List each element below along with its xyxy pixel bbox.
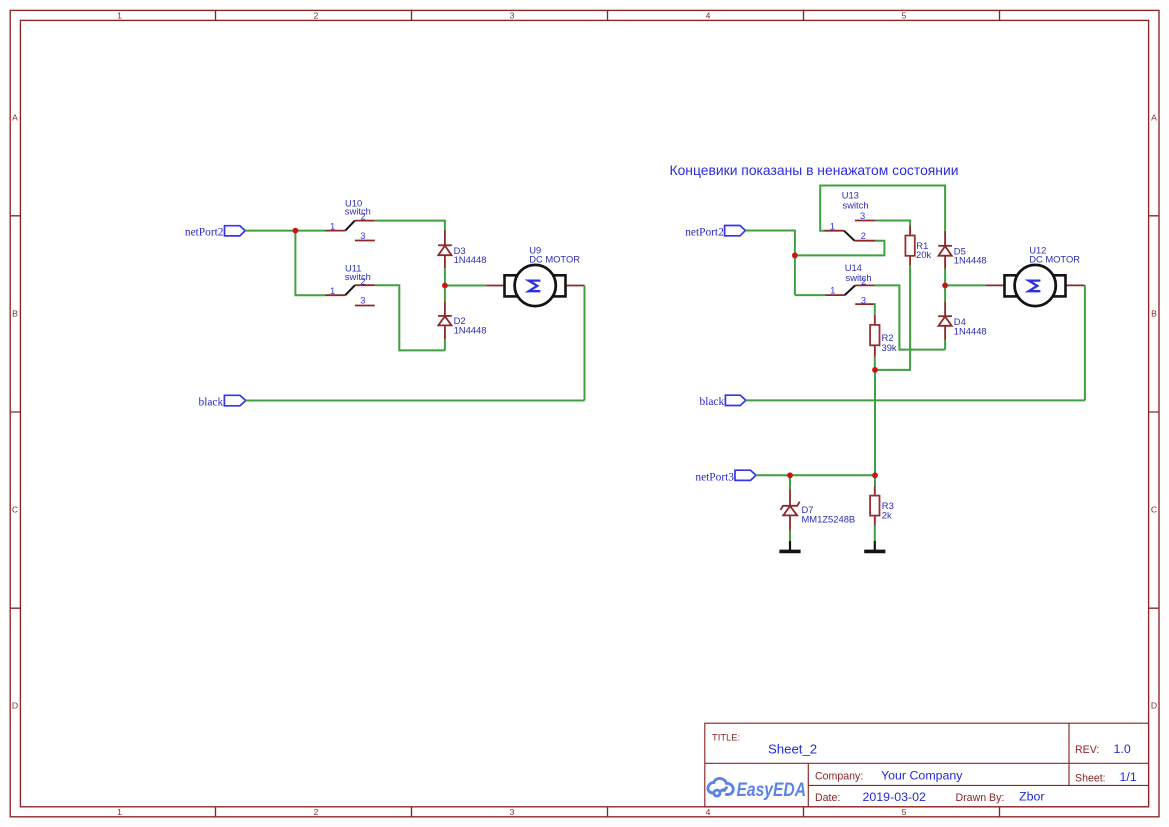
svg-text:3: 3 xyxy=(360,230,365,241)
wire top loop U13 pin1 to D5 cathode xyxy=(820,186,945,231)
wire U13 pin3 to R1 top xyxy=(875,221,910,226)
svg-text:C: C xyxy=(1151,505,1157,515)
svg-text:MM1Z5248B: MM1Z5248B xyxy=(802,514,856,525)
svg-text:Date:: Date: xyxy=(815,792,840,804)
junction node (U9 motor left) xyxy=(442,283,448,289)
svg-text:DC MOTOR: DC MOTOR xyxy=(529,254,580,265)
svg-text:B: B xyxy=(12,309,18,319)
svg-text:3: 3 xyxy=(861,295,866,306)
svg-text:1: 1 xyxy=(117,10,122,20)
wire node down to netPort3 line xyxy=(874,370,876,475)
net flag netPort2 (right) xyxy=(685,226,745,239)
svg-text:D: D xyxy=(12,701,18,711)
wire D4 anode down xyxy=(944,340,946,350)
junction node (netPort2 right) xyxy=(792,253,798,259)
svg-text:1N4448: 1N4448 xyxy=(454,325,487,336)
net flag black (left) xyxy=(199,395,246,408)
net flag netPort2 (left) xyxy=(185,226,245,239)
diode D4 1N4448 xyxy=(938,302,986,340)
svg-text:black: black xyxy=(199,396,224,408)
wire node to motor U12 xyxy=(945,284,985,286)
motor U12 DC MOTOR xyxy=(985,244,1085,306)
junction node (below R2) xyxy=(872,367,878,373)
net flag netPort3 xyxy=(695,470,756,483)
wire U10 pin2 to D3 xyxy=(375,221,445,231)
svg-text:TITLE:: TITLE: xyxy=(712,732,740,743)
wire netPort2 to U10 pin1 xyxy=(245,230,325,232)
svg-text:netPort2: netPort2 xyxy=(685,227,724,239)
wire R3 to ground xyxy=(874,526,876,542)
svg-text:DC MOTOR: DC MOTOR xyxy=(1029,254,1080,265)
resistor R2 39k xyxy=(870,315,897,357)
wire black bus (right) xyxy=(746,399,1085,401)
svg-text:2019-03-02: 2019-03-02 xyxy=(863,790,926,804)
svg-text:Концевики показаны в ненажатом: Концевики показаны в ненажатом состоянии xyxy=(670,163,959,178)
wire R1 bottom to node above netPort3 xyxy=(875,265,910,370)
svg-text:1: 1 xyxy=(330,285,335,296)
svg-text:Your Company: Your Company xyxy=(881,769,963,783)
svg-text:D: D xyxy=(1151,701,1157,711)
wire U12 right down xyxy=(1084,285,1086,400)
svg-text:REV:: REV: xyxy=(1075,744,1099,756)
wire D2 anode down xyxy=(444,339,446,350)
svg-text:2: 2 xyxy=(861,276,866,287)
ground under D7 xyxy=(779,541,800,551)
wire netPort2 right down to U14 pin1 xyxy=(745,231,795,296)
svg-text:3: 3 xyxy=(510,10,515,20)
svg-text:switch: switch xyxy=(345,206,371,217)
wire D5 to D4 through node xyxy=(944,269,946,303)
svg-text:B: B xyxy=(1151,309,1157,319)
svg-text:black: black xyxy=(700,396,725,408)
switch U13 (mirrored) xyxy=(825,190,876,241)
wire black bus (left) xyxy=(246,400,585,402)
svg-text:3: 3 xyxy=(360,295,365,306)
svg-text:EasyEDA: EasyEDA xyxy=(737,780,807,801)
switch U11 xyxy=(325,263,375,306)
wire to U14 pin1 xyxy=(795,294,825,296)
svg-text:1N4448: 1N4448 xyxy=(454,254,487,265)
wire U11 pin2 to bottom of D2 xyxy=(375,285,445,350)
diode D2 1N4448 xyxy=(438,302,486,339)
wire R2 bottom to node xyxy=(874,357,876,370)
diode D5 1N4448 xyxy=(938,231,986,269)
svg-text:1: 1 xyxy=(830,285,835,296)
motor U9 DC MOTOR xyxy=(486,244,584,306)
ground under R3 xyxy=(864,541,885,551)
svg-text:switch: switch xyxy=(846,272,872,283)
svg-text:2: 2 xyxy=(360,275,365,286)
EasyEDA logo xyxy=(708,778,733,796)
svg-text:Drawn By:: Drawn By: xyxy=(956,792,1005,804)
wire netPort3 line xyxy=(756,474,875,476)
svg-text:2: 2 xyxy=(314,10,319,20)
wire U14 pin2 to D4 anode xyxy=(875,285,945,349)
svg-text:39k: 39k xyxy=(882,342,897,353)
svg-text:4: 4 xyxy=(706,807,711,817)
svg-text:1N4448: 1N4448 xyxy=(954,255,987,266)
svg-text:Sheet_2: Sheet_2 xyxy=(768,742,817,757)
resistor R3 2k xyxy=(870,486,894,525)
svg-text:2: 2 xyxy=(861,230,866,241)
svg-text:20k: 20k xyxy=(916,249,931,260)
svg-text:1: 1 xyxy=(117,807,122,817)
wire U13 pin2 loop back to node xyxy=(795,241,885,256)
svg-text:A: A xyxy=(12,113,18,123)
svg-text:2k: 2k xyxy=(882,510,892,521)
svg-text:netPort3: netPort3 xyxy=(695,471,734,483)
svg-text:C: C xyxy=(12,505,18,515)
svg-text:1/1: 1/1 xyxy=(1120,770,1137,784)
junction node (U12 motor left) xyxy=(942,283,948,289)
svg-text:3: 3 xyxy=(860,210,865,221)
wire D3 to D2 through node xyxy=(444,268,446,302)
svg-text:5: 5 xyxy=(902,10,907,20)
svg-text:netPort2: netPort2 xyxy=(185,227,224,239)
svg-text:Zbor: Zbor xyxy=(1019,789,1044,803)
svg-text:3: 3 xyxy=(510,807,515,817)
svg-text:A: A xyxy=(1151,113,1157,123)
junction node (netPort2 left) xyxy=(293,228,299,234)
wire U14 pin3 to R2 top xyxy=(874,304,876,315)
svg-text:2: 2 xyxy=(360,211,365,222)
svg-text:1.0: 1.0 xyxy=(1114,742,1131,756)
switch U10 xyxy=(325,197,375,241)
junction node (netPort3 D7) xyxy=(787,472,793,478)
svg-text:1: 1 xyxy=(330,221,335,232)
wire D7 to ground xyxy=(789,531,791,541)
svg-text:5: 5 xyxy=(902,807,907,817)
svg-text:Sheet:: Sheet: xyxy=(1075,772,1106,784)
svg-text:switch: switch xyxy=(345,271,371,282)
wire netPort3 to D7 xyxy=(789,475,791,489)
wire U9 right down xyxy=(584,286,586,401)
wire node to motor U9 xyxy=(445,285,486,287)
svg-text:1: 1 xyxy=(830,220,835,231)
svg-text:1N4448: 1N4448 xyxy=(954,325,987,336)
zener diode D7 MM1Z5248B xyxy=(781,489,856,530)
svg-text:Company:: Company: xyxy=(815,771,863,783)
svg-text:switch: switch xyxy=(843,199,869,210)
resistor R1 20k xyxy=(905,226,931,266)
wire junction down to U11 pin1 xyxy=(295,231,325,296)
switch U14 xyxy=(825,262,875,305)
diode D3 1N4448 xyxy=(438,230,486,268)
net flag black (right) xyxy=(700,395,746,408)
svg-text:2: 2 xyxy=(314,807,319,817)
wire netPort3 node to R3 xyxy=(874,475,876,486)
junction node (netPort3 R3) xyxy=(872,472,878,478)
svg-text:4: 4 xyxy=(706,10,711,20)
title block xyxy=(705,723,1149,807)
